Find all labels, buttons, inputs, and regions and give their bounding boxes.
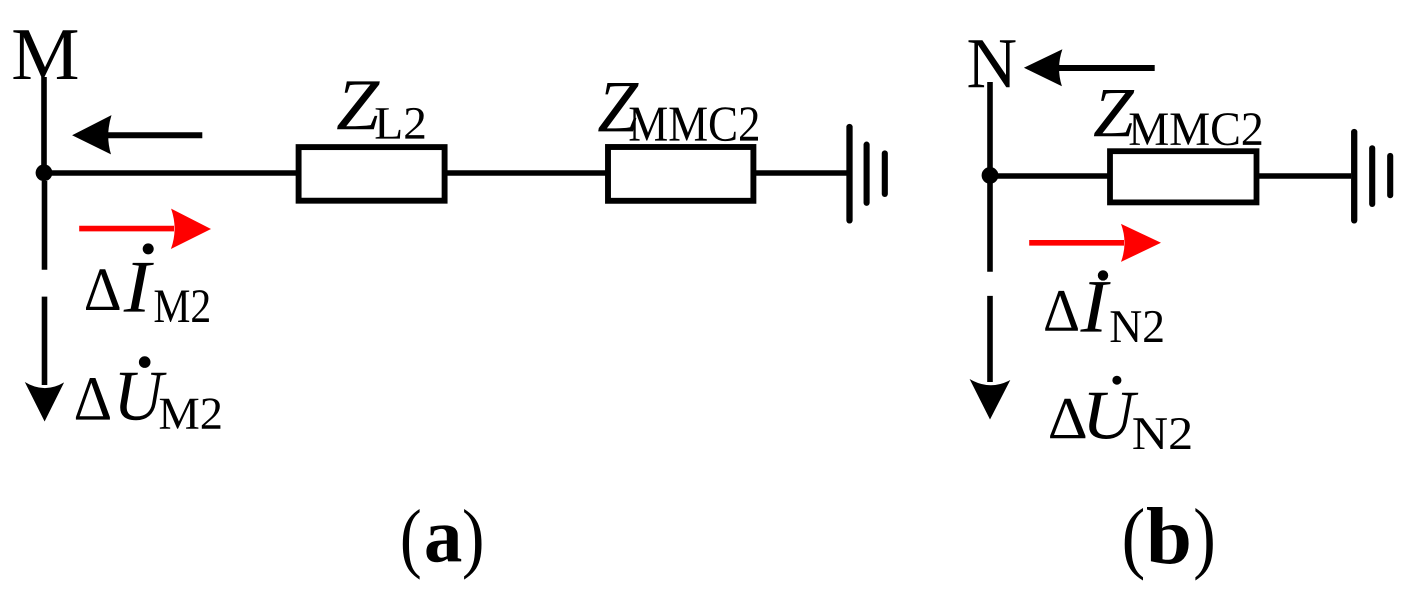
- arrow: red current arrow of I_M2: [79, 209, 211, 249]
- arrow: black fault-direction arrow at M: [72, 115, 202, 154]
- ground symbol (b): [1354, 132, 1390, 220]
- arrow: black fault-direction arrow at N: [1024, 49, 1155, 86]
- label delta I N2: I italic: [1080, 282, 1110, 332]
- label delta U N2: U italic: [1089, 393, 1139, 439]
- ground symbol (a): [850, 127, 885, 220]
- node M junction dot: [36, 164, 53, 181]
- caption (b): bold b: [1147, 507, 1189, 564]
- arrow: dashed voltage arrow U_M2, arrowhead: [25, 382, 64, 422]
- label ZMMC2 (a): Z: [598, 83, 639, 131]
- label delta U N2: dot above U: [1112, 376, 1121, 385]
- resistor ZMMC2 (b): [1110, 151, 1257, 202]
- wire: bus M vertical: [41, 77, 47, 173]
- wire: ZL2 to ZMMC2: [444, 170, 608, 176]
- label delta I N2: dot above I: [1098, 270, 1108, 280]
- label delta U M2: dot above U: [139, 356, 151, 368]
- caption (a): right paren: [464, 509, 481, 580]
- resistor ZL2: [299, 147, 445, 201]
- label delta I M2: subscript M2: [155, 290, 209, 322]
- wire: ZMMC2 to ground (a): [753, 170, 847, 176]
- arrow: dashed voltage arrow U_N2, segment 2: [987, 296, 993, 382]
- label delta U M2: subscript M2: [160, 398, 221, 428]
- node N label: [969, 40, 1016, 87]
- arrow: dashed voltage arrow U_N2, segment 1: [987, 183, 993, 272]
- label delta I N2: subscript N2: [1111, 311, 1163, 342]
- label delta U N2: delta: [1050, 399, 1085, 439]
- label delta U N2: subscript N2: [1133, 418, 1190, 449]
- caption (b): right paren: [1195, 508, 1212, 581]
- wire: bus N vertical: [987, 82, 993, 175]
- label delta U M2: delta: [76, 378, 110, 420]
- resistor ZMMC2 (a): [608, 147, 753, 201]
- arrow: dashed voltage arrow U_N2, arrowhead: [970, 379, 1011, 420]
- arrow: dashed voltage arrow U_M2, segment 2: [42, 297, 48, 385]
- caption (a): bold a: [426, 525, 461, 562]
- label ZL2 value: subscript L2: [376, 108, 425, 139]
- wire: node M to resistor ZL2: [44, 170, 299, 176]
- label ZL2 value: Z: [337, 81, 380, 129]
- label ZMMC2 (b): subscript MMC2: [1130, 113, 1262, 145]
- wire: node N to resistor ZMMC2 (b): [990, 173, 1110, 179]
- arrow: dashed voltage arrow U_M2, segment 1: [42, 181, 48, 270]
- label delta U M2: U italic: [120, 373, 167, 421]
- arrow: red current arrow of I_N2: [1029, 224, 1161, 262]
- node N junction dot: [982, 167, 999, 184]
- label ZMMC2 (b): Z: [1094, 90, 1134, 136]
- label delta I N2: delta: [1045, 291, 1078, 331]
- label ZMMC2 (a): subscript MMC2: [630, 107, 758, 141]
- caption (b): left paren: [1125, 508, 1143, 581]
- label delta I M2: I italic: [124, 263, 154, 312]
- label delta I M2: dot above I: [143, 243, 154, 254]
- node M label: [13, 30, 77, 79]
- wire: ZMMC2 to ground (b): [1256, 173, 1351, 179]
- label delta I M2: delta: [86, 269, 120, 310]
- caption (a): left paren: [403, 509, 420, 580]
